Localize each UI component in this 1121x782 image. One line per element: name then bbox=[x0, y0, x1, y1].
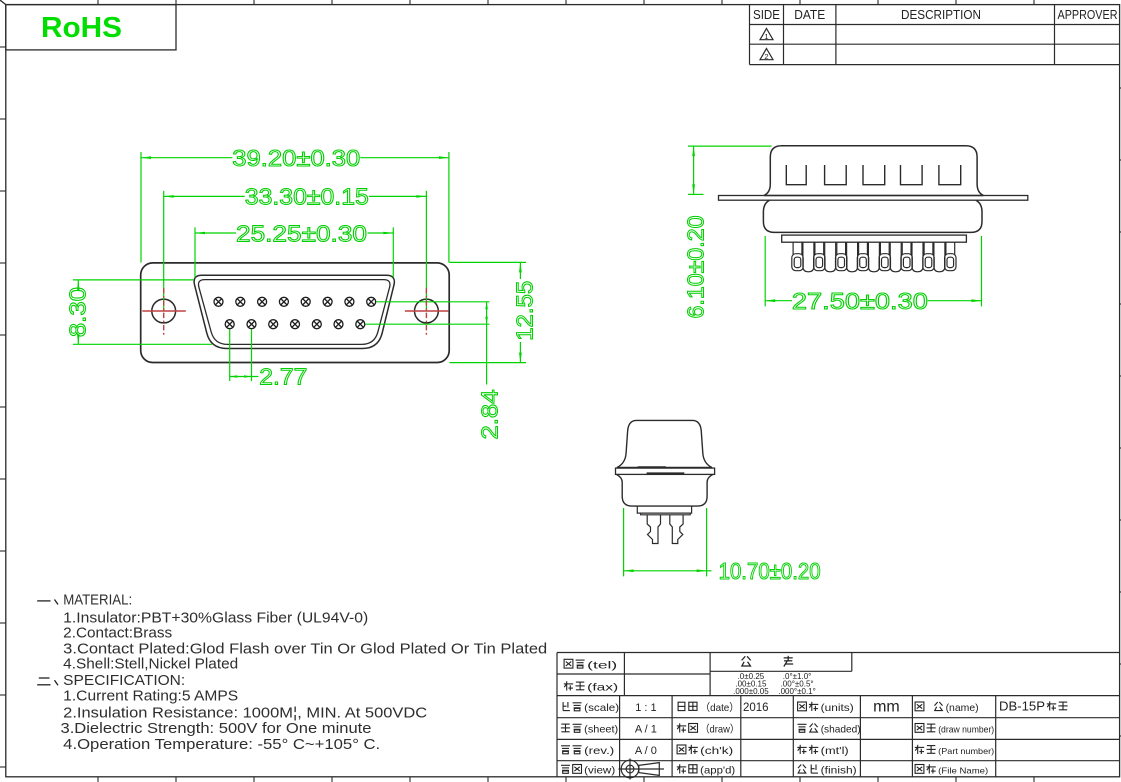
svg-text:(tel): (tel) bbox=[587, 659, 617, 671]
end view: left prong bbox=[647, 515, 660, 544]
svg-text:(mt'l): (mt'l) bbox=[821, 745, 849, 757]
dimension 33.30±0.15 bbox=[164, 184, 427, 311]
svg-text:(draw number): (draw number) bbox=[938, 725, 994, 735]
end view: insulator body bbox=[617, 474, 713, 506]
svg-text:4.Shell:Stell,Nickel Plated: 4.Shell:Stell,Nickel Plated bbox=[63, 657, 238, 673]
svg-text:SIDE: SIDE bbox=[753, 8, 780, 22]
side view: insulator body bbox=[763, 200, 982, 232]
svg-text:2016: 2016 bbox=[743, 702, 769, 714]
title block grid bbox=[557, 653, 1120, 777]
svg-text:10.70±0.20: 10.70±0.20 bbox=[719, 558, 821, 584]
title block: tel / fax labels bbox=[564, 659, 573, 668]
svg-text:33.30±0.15: 33.30±0.15 bbox=[245, 184, 369, 210]
title block row 4: view / approve / finish / file name bbox=[561, 765, 570, 773]
svg-text:(File Name): (File Name) bbox=[938, 766, 988, 776]
revision triangle 1 bbox=[760, 29, 773, 40]
svg-text:A / 1: A / 1 bbox=[635, 724, 657, 736]
svg-text:(shaded): (shaded) bbox=[821, 724, 861, 736]
title block row 2: sheet / draw / shaded / draw number bbox=[561, 724, 570, 732]
end view: shadow line in flange bbox=[647, 472, 685, 474]
dimension 6.10±0.20 bbox=[682, 146, 771, 318]
svg-text:(view): (view) bbox=[584, 765, 615, 777]
svg-text:A / 0: A / 0 bbox=[635, 745, 657, 757]
left hole centerlines (red) bbox=[142, 288, 186, 337]
dimension 10.70±0.20 bbox=[624, 508, 821, 584]
revision triangle 2 bbox=[760, 49, 773, 60]
svg-text:27.50±0.30: 27.50±0.30 bbox=[792, 288, 928, 314]
svg-text:39.20±0.30: 39.20±0.30 bbox=[232, 145, 360, 171]
svg-text:1: 1 bbox=[764, 32, 768, 41]
svg-text:8.30: 8.30 bbox=[64, 287, 90, 337]
svg-text:（draw）: （draw） bbox=[700, 724, 739, 736]
svg-text:（date）: （date） bbox=[700, 702, 739, 714]
svg-text:(rev.): (rev.) bbox=[584, 745, 614, 757]
dimension 2.84 (row offset) bbox=[366, 302, 503, 440]
svg-text:2.77: 2.77 bbox=[259, 364, 307, 390]
svg-text:mm: mm bbox=[873, 699, 900, 716]
front view: connector shell outline bbox=[141, 263, 450, 363]
svg-text:(name): (name) bbox=[946, 702, 979, 714]
dimension 2.77 (pin pitch) bbox=[230, 330, 308, 390]
end view: flange bbox=[616, 468, 715, 474]
svg-text:3.Contact Plated:Glod Flash ov: 3.Contact Plated:Glod Flash over Tin Or … bbox=[63, 641, 547, 657]
title block row 1: scale / date / units / name bbox=[563, 702, 570, 711]
title block: tolerance header 公 差 bbox=[742, 656, 751, 666]
title block row 3: rev / check / material / part number bbox=[561, 746, 570, 754]
front view: 15 contact pins bbox=[214, 297, 376, 328]
side view: insert step bbox=[782, 235, 967, 242]
front view: left mounting hole bbox=[152, 299, 176, 323]
dimension 27.50±0.30 bbox=[765, 236, 981, 314]
svg-text:.000±0.05: .000±0.05 bbox=[733, 687, 769, 696]
RoHS logo box bbox=[6, 5, 176, 50]
right hole centerlines (red) bbox=[405, 288, 449, 337]
end view: step 1 bbox=[637, 506, 691, 513]
svg-text:25.25±0.30: 25.25±0.30 bbox=[236, 220, 367, 246]
svg-text:3.Dielectric Strength: 500V fo: 3.Dielectric Strength: 500V for One minu… bbox=[61, 721, 372, 737]
front view: D-sub opening outer outline bbox=[194, 275, 394, 348]
front view: right mounting hole bbox=[415, 299, 439, 323]
svg-text:(app'd): (app'd) bbox=[700, 765, 735, 777]
side view: top shield (hat) outline bbox=[764, 146, 983, 196]
svg-text:DESCRIPTION: DESCRIPTION bbox=[901, 8, 981, 22]
svg-text:12.55: 12.55 bbox=[511, 281, 537, 341]
svg-text:DATE: DATE bbox=[794, 8, 825, 22]
svg-text:(ch'k): (ch'k) bbox=[700, 745, 733, 757]
svg-text:APPROVER: APPROVER bbox=[1058, 8, 1118, 22]
svg-text:1.Insulator:PBT+30%Glass Fiber: 1.Insulator:PBT+30%Glass Fiber (UL94V-0) bbox=[63, 610, 368, 626]
svg-text:MATERIAL:: MATERIAL: bbox=[63, 593, 132, 609]
svg-text:1 : 1: 1 : 1 bbox=[635, 702, 656, 714]
end view: right prong bbox=[670, 515, 683, 544]
svg-text:(fax): (fax) bbox=[587, 682, 618, 694]
dimension 12.55 (right vertical) bbox=[450, 262, 538, 362]
svg-text:.000°±0.1°: .000°±0.1° bbox=[778, 687, 815, 696]
side view: mounting flange bbox=[719, 196, 1028, 201]
dimension 25.25±0.30 bbox=[195, 220, 393, 277]
svg-text:1.Current Rating:5 AMPS: 1.Current Rating:5 AMPS bbox=[63, 688, 238, 704]
end view: shield dome bbox=[617, 420, 712, 467]
end view: shadow line in dome bbox=[638, 466, 666, 468]
note: hanzi bullet 一、 bbox=[37, 600, 58, 605]
svg-text:2.Contact:Brass: 2.Contact:Brass bbox=[63, 626, 172, 642]
third angle projection symbol bbox=[619, 759, 665, 780]
dimension 8.30 (left vertical) bbox=[64, 280, 212, 344]
end view: step 2 bbox=[641, 513, 691, 515]
svg-text:(units): (units) bbox=[821, 702, 854, 714]
svg-text:RoHS: RoHS bbox=[41, 12, 122, 44]
svg-text:(scale): (scale) bbox=[584, 702, 619, 714]
front view: D-sub opening inner outline bbox=[198, 280, 390, 345]
svg-text:DB-15P: DB-15P bbox=[999, 700, 1045, 714]
svg-text:6.10±0.20: 6.10±0.20 bbox=[682, 216, 708, 319]
dimension 39.20±0.30 bbox=[141, 145, 449, 263]
svg-text:SPECIFICATION:: SPECIFICATION: bbox=[63, 673, 185, 689]
svg-text:(sheet): (sheet) bbox=[584, 724, 618, 736]
side view: 5 contact slots bbox=[786, 165, 960, 185]
revision table bbox=[750, 5, 1120, 65]
svg-text:2: 2 bbox=[764, 52, 768, 61]
svg-text:4.Operation Temperature: -55°: 4.Operation Temperature: -55° C~+105° C. bbox=[63, 737, 380, 753]
svg-text:(Part number): (Part number) bbox=[938, 746, 994, 756]
svg-text:2.Insulation Resistance: 1000M: 2.Insulation Resistance: 1000M¦, MIN. At… bbox=[63, 706, 427, 722]
note: hanzi bullet 二、 bbox=[37, 678, 58, 685]
svg-text:2.84: 2.84 bbox=[476, 389, 502, 439]
svg-text:(finish): (finish) bbox=[821, 765, 857, 777]
side view: 15 solder pins bbox=[792, 242, 956, 272]
